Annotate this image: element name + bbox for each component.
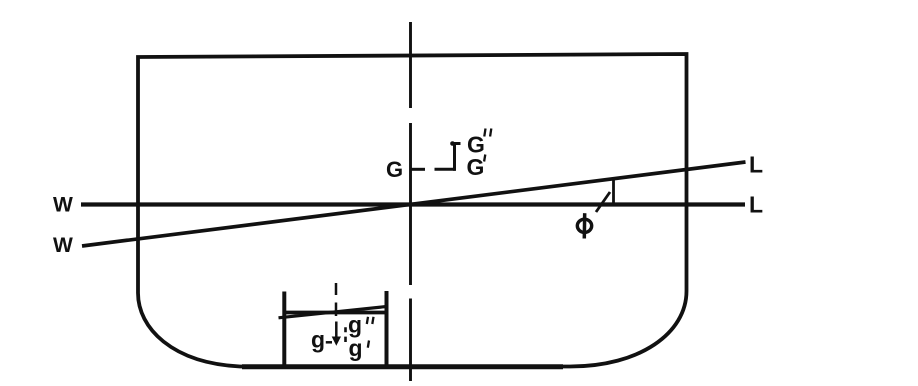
colon dashes	[344, 327, 347, 342]
liquid level horizontal	[283, 311, 388, 315]
svg-text:W: W	[53, 234, 73, 257]
waterline WL horizontal	[81, 202, 745, 206]
G' to G'' vertical	[453, 144, 456, 171]
inclined waterline	[82, 162, 746, 246]
tank right wall	[385, 291, 389, 365]
G'' top tick	[451, 142, 461, 145]
liquid surface inclined	[279, 307, 387, 318]
svg-text:L: L	[749, 152, 763, 178]
svg-text:G: G	[467, 154, 485, 180]
tank centerline dashes	[335, 283, 338, 316]
angle tick	[612, 180, 615, 204]
tank left wall	[282, 292, 286, 366]
svg-text:g: g	[311, 327, 325, 353]
arrowhead	[332, 337, 341, 346]
G tick on centerline	[411, 168, 426, 171]
svg-text:g: g	[348, 311, 362, 337]
svg-text:g: g	[349, 335, 363, 361]
phi leader	[596, 192, 610, 212]
arrow shaft	[335, 322, 338, 339]
svg-text:L: L	[749, 192, 763, 218]
ship centerline	[409, 22, 412, 381]
svg-text:W: W	[53, 194, 73, 217]
phi symbol	[577, 213, 591, 238]
G to G' dash	[435, 168, 456, 171]
dash after g	[326, 341, 332, 344]
hull bottom reinforcing under tank	[242, 364, 563, 369]
svg-text:G: G	[386, 157, 403, 182]
hull outline	[138, 54, 687, 367]
